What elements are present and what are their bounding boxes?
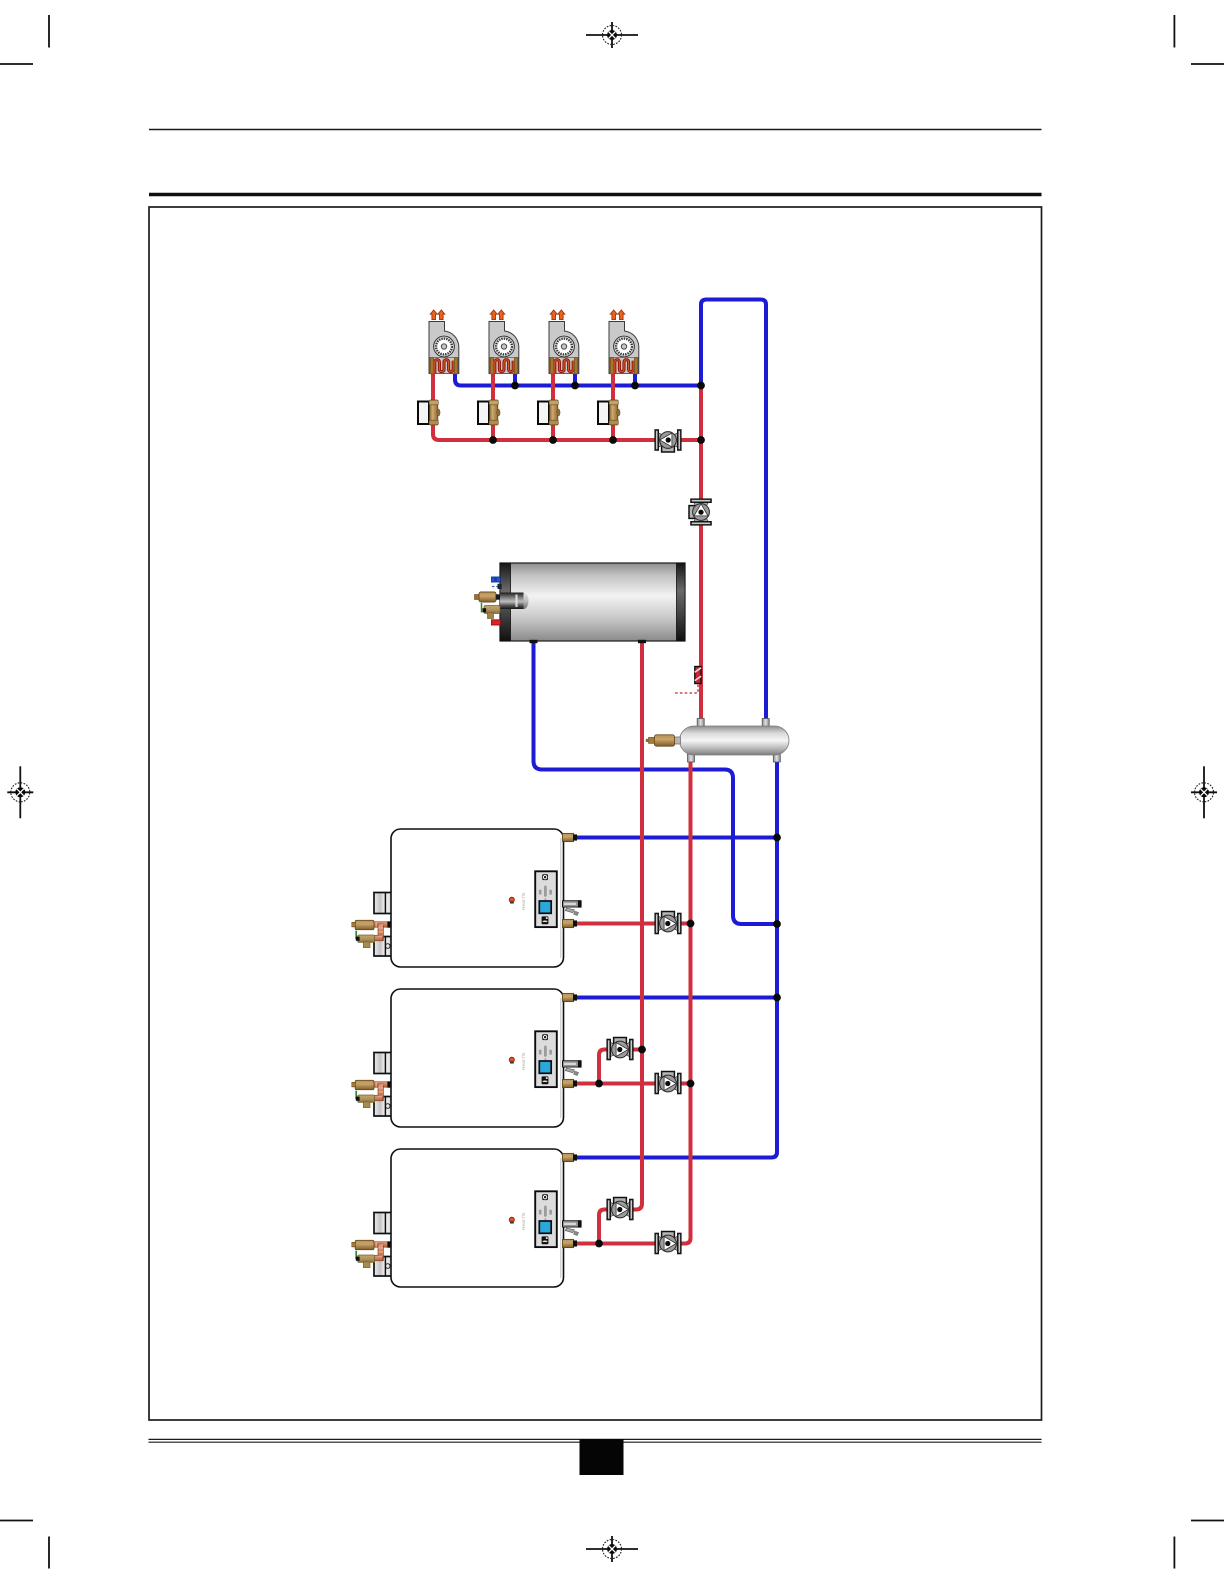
wire blue return riser unit4 [633,372,637,386]
air handler AH2 [489,310,519,374]
header thick rule [149,193,1042,196]
wire blue return riser unit1 + return manifold [455,372,701,386]
junction node red manifold unit3 [549,436,557,444]
air handler AH4 [609,310,639,374]
junction node red main boiler2 [687,1080,695,1088]
header thin rule [149,129,1042,131]
wire red boiler2 upper branch [599,1050,642,1084]
circulator pump P5 boiler2 [654,1072,681,1095]
crop mark top-right vertical [1173,15,1175,48]
registration mark left [7,766,33,818]
zone valve ZV2 [478,400,500,425]
wire red supply riser unit3 [551,372,555,440]
zone valve ZV3 [538,400,560,425]
aquastat brass [479,592,496,602]
junction node blue manifold unit3 [571,382,579,390]
circulator pump P6 boiler3 tank loop [606,1198,633,1221]
junction node manifold corner blue/red [697,382,705,390]
wire red supply riser unit2 [491,372,495,440]
junction node boiler3 branch tee [595,1240,603,1248]
footer double rule [149,1438,1042,1440]
junction node blue main tank return [773,920,781,928]
wire blue boiler1 return branch [577,836,777,840]
crop mark top-left vertical [48,15,50,48]
circulator pump P3 boiler1 [654,912,681,935]
wire blue tank return [534,640,778,924]
page number block [580,1439,624,1475]
circulator pump P1 air-handler loop [654,429,681,452]
diagram border box [149,207,1042,1420]
wire blue over-loop to separator top right [701,300,766,723]
registration mark right [1191,766,1217,818]
drain valve [481,603,483,613]
wire red boiler2 supply branch [577,1082,691,1086]
crop mark bottom-left horizontal [0,1520,33,1522]
zone valve ZV1 [418,400,440,425]
crop mark bottom-right vertical [1173,1537,1175,1569]
junction node red main boiler1 [687,920,695,928]
junction node tank line boiler2 upper [638,1046,646,1054]
junction node red manifold unit2 [489,436,497,444]
bottom port nubs [530,640,538,643]
registration mark top center [586,22,638,48]
air handler AH1 [429,310,459,374]
wire red tank supply line + boiler3 upper branch [599,640,642,1244]
boiler B2 [352,989,582,1127]
wire blue return riser unit3 [573,372,577,386]
circulator pump P4 boiler2 tank loop [606,1038,633,1061]
crop mark bottom-right horizontal [1191,1520,1224,1522]
boiler B1 [352,829,582,967]
junction node blue main boiler2 [773,994,781,1002]
air vent valve [674,737,681,744]
wire red main riser manifold to separator top left [699,386,703,723]
low loss header / hydraulic separator [646,719,789,763]
immersion element [500,593,524,610]
wire red supply riser unit1 + supply manifold [433,372,701,440]
wire red boiler1 supply branch [577,922,691,926]
circulator pump P2 system riser [689,498,712,525]
junction node boiler2 branch tee [595,1080,603,1088]
air handler AH3 [549,310,579,374]
wire blue boiler return main from separator bottom right [577,756,777,1158]
junction node blue manifold unit4 [631,382,639,390]
relief stub [492,620,501,625]
crop mark top-right horizontal [1191,63,1224,65]
temperature sensor on supply riser [674,667,701,694]
sensor dashed lead [492,586,499,588]
indirect water heater tank [475,563,686,643]
crop mark top-left horizontal [0,63,33,65]
junction node red riser tee [697,436,705,444]
circulator pump P7 boiler3 [654,1232,681,1255]
wire red boiler supply main from separator bottom left + boiler3 branch [577,756,691,1244]
junction node blue main boiler1 [773,834,781,842]
cold inlet stub [492,577,501,582]
wire red supply riser unit4 [611,372,615,440]
junction node red manifold unit4 [609,436,617,444]
zone valve ZV4 [598,400,620,425]
crop mark bottom-left vertical [48,1537,50,1569]
wire blue return riser unit2 [513,372,517,386]
junction node blue manifold unit2 [511,382,519,390]
registration mark bottom center [586,1536,638,1562]
boiler B3 [352,1149,582,1287]
wire blue boiler2 return branch [577,996,777,1000]
